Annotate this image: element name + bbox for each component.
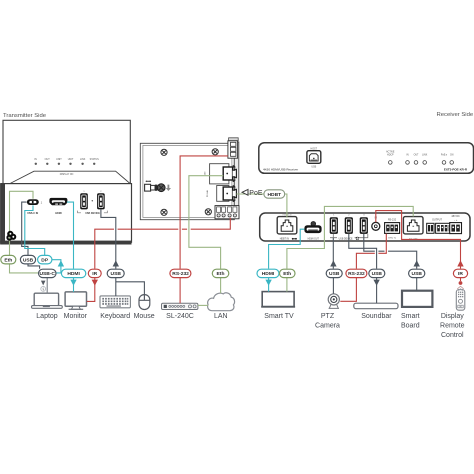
wire HDBT pill to receiver HDBT IN port (green) bbox=[284, 194, 287, 218]
trapezoid bezel bbox=[10, 171, 130, 183]
svg-text:OUT: OUT bbox=[45, 158, 51, 161]
1G LAN RJ45 (receiver) bbox=[403, 217, 423, 241]
pill RS-232 (SL-240C) bbox=[170, 269, 191, 277]
svg-text:PD LAN: PD LAN bbox=[206, 189, 209, 197]
wire DP from USB-C port to DP pill (teal) bbox=[25, 205, 45, 255]
svg-text:Monitor: Monitor bbox=[64, 313, 88, 320]
arrow down HDMI monitor (teal) bbox=[70, 280, 76, 286]
pill RS-232 (PTZ) bbox=[346, 269, 367, 277]
Smart Board icon bbox=[402, 291, 432, 307]
svg-text:UNIT: UNIT bbox=[56, 158, 62, 161]
svg-text:HOST: HOST bbox=[310, 148, 317, 151]
pill HDMI (monitor) bbox=[61, 269, 85, 277]
USB DEVICE ports 1-3 (receiver) bbox=[330, 215, 368, 241]
svg-text:USB DEVICE: USB DEVICE bbox=[339, 239, 353, 241]
USB DEVICE ports 1,2 (transmitter) bbox=[78, 191, 108, 215]
PTZ camera icon bbox=[328, 294, 339, 309]
wire IR jack to remote control (red) bbox=[376, 211, 461, 269]
svg-text:USB-C: USB-C bbox=[39, 271, 55, 277]
svg-text:USB: USB bbox=[23, 257, 34, 263]
pill HDMI (TV) bbox=[257, 269, 279, 277]
wire USB port2 to Soundbar (slate) bbox=[349, 234, 377, 269]
svg-text:STATUS: STATUS bbox=[90, 158, 99, 161]
Smart TV icon bbox=[261, 292, 295, 308]
svg-text:Keyboard: Keyboard bbox=[100, 313, 130, 320]
arrow up USB board (slate) bbox=[414, 260, 420, 266]
IR waves above remote bbox=[457, 286, 463, 289]
HDBT IN RJ45 (receiver) bbox=[277, 214, 297, 240]
arrow up USB PTZ (slate) bbox=[330, 260, 336, 266]
svg-text:HDMI: HDMI bbox=[67, 271, 80, 277]
monitor icon bbox=[65, 292, 86, 309]
wire DP pill to USB-C pill (teal) bbox=[52, 260, 61, 273]
pill DP (tx) bbox=[38, 255, 52, 264]
LED dots bbox=[35, 163, 96, 165]
svg-text:USB: USB bbox=[412, 271, 423, 277]
svg-text:RS-232: RS-232 bbox=[388, 219, 397, 222]
svg-text:Receiver Side: Receiver Side bbox=[437, 112, 474, 118]
svg-text:G Rx Tx: G Rx Tx bbox=[388, 237, 397, 239]
svg-text:EXT3-POE-XR-R: EXT3-POE-XR-R bbox=[444, 168, 468, 172]
wire HDMI port to monitor (teal) bbox=[67, 202, 74, 269]
pill HDBT bbox=[264, 190, 285, 198]
svg-text:Remote: Remote bbox=[440, 322, 465, 329]
svg-text:OUT: OUT bbox=[414, 154, 419, 156]
middle mounting plate (transmitter rear) bbox=[140, 142, 239, 220]
LED labels bbox=[34, 158, 99, 161]
DEVICES-LAYER bbox=[0, 120, 473, 244]
Soundbar icon bbox=[354, 303, 398, 309]
wire Eth from USB-C port to Eth pill (green) bbox=[10, 191, 34, 255]
svg-text:− +: − + bbox=[454, 219, 458, 222]
svg-text:HDCP: HDCP bbox=[387, 154, 394, 156]
TEXT-LAYER bbox=[3, 112, 474, 339]
svg-text:IR: IR bbox=[92, 271, 97, 277]
svg-text:ACTIVE: ACTIVE bbox=[386, 151, 395, 154]
svg-text:LINK: LINK bbox=[422, 154, 428, 156]
svg-text:Board: Board bbox=[401, 322, 420, 329]
kramer logo bbox=[7, 232, 15, 240]
bottom terminal block on plate bbox=[215, 206, 239, 219]
pill IR (remote) bbox=[453, 269, 467, 277]
svg-text:Soundbar: Soundbar bbox=[361, 313, 392, 320]
svg-text:Eth: Eth bbox=[283, 271, 291, 277]
svg-text:LINK: LINK bbox=[80, 158, 86, 161]
arrow down IR monitor (red) bbox=[92, 280, 98, 286]
OUTPUT relay terminal (receiver) bbox=[427, 219, 454, 234]
laptop icon bbox=[32, 293, 63, 308]
wire USB from USB-C port to USB pill (slate) bbox=[22, 202, 28, 256]
svg-text:IN: IN bbox=[34, 158, 37, 161]
svg-text:DP: DP bbox=[41, 257, 49, 263]
LAN cloud icon bbox=[208, 293, 235, 311]
svg-text:HDBT IN: HDBT IN bbox=[280, 239, 289, 241]
svg-text:Control: Control bbox=[441, 332, 464, 339]
transmitter wall-plate bottom section bbox=[0, 184, 131, 245]
svg-text:OUTPUT: OUTPUT bbox=[432, 219, 442, 222]
pill USB (tx) bbox=[20, 255, 35, 264]
svg-text:Smart TV: Smart TV bbox=[264, 313, 294, 320]
pill IR (monitor) bbox=[88, 269, 101, 277]
ICONS-LAYER bbox=[32, 281, 465, 311]
arrow down HDMI TV (teal) bbox=[265, 280, 271, 286]
HDMI OUT port (receiver) bbox=[304, 222, 321, 241]
svg-text:HDMI OUT: HDMI OUT bbox=[308, 239, 320, 241]
svg-text:48V DC: 48V DC bbox=[451, 215, 460, 218]
HDBT PoE RJ45 (plate lower jack) bbox=[206, 185, 237, 202]
svg-text:UNIT: UNIT bbox=[68, 158, 74, 161]
mouse icon bbox=[139, 295, 150, 310]
svg-text:PoE ▸: PoE ▸ bbox=[441, 153, 447, 156]
wire RS-232 terminal to PTZ camera (red) bbox=[356, 234, 386, 269]
USB-C IN port (transmitter) bbox=[27, 199, 43, 215]
wire RS-232 from plate top terminal to SL-240C (red) bbox=[180, 156, 228, 269]
pill USB (PTZ) bbox=[326, 269, 342, 277]
IR emitter jack on plate left bbox=[145, 181, 171, 192]
arrow up IR remote (red) bbox=[457, 260, 463, 266]
receiver rear panel bbox=[260, 213, 470, 241]
top terminal block on plate bbox=[228, 138, 238, 158]
svg-text:Mouse: Mouse bbox=[134, 313, 155, 320]
48V DC power terminal (receiver) bbox=[450, 215, 462, 233]
svg-text:PoE: PoE bbox=[249, 190, 263, 197]
svg-text:Laptop: Laptop bbox=[36, 313, 58, 320]
svg-text:USB-C IN: USB-C IN bbox=[27, 212, 38, 215]
svg-text:4K60 HDMI/USB Receiver: 4K60 HDMI/USB Receiver bbox=[263, 168, 298, 172]
RS-232 terminal (receiver) bbox=[385, 219, 400, 240]
IR jack (receiver) bbox=[372, 217, 380, 231]
svg-text:HDBT: HDBT bbox=[268, 192, 282, 198]
plate screws x4 bbox=[161, 149, 218, 216]
svg-text:LAN: LAN bbox=[214, 313, 228, 320]
arrow down USB soundbar (slate) bbox=[373, 280, 379, 286]
wire USB port1 to PTZ camera (slate) bbox=[332, 238, 334, 269]
wire Eth pill to USB-C pill (green) bbox=[10, 264, 39, 273]
svg-text:USB: USB bbox=[329, 271, 340, 277]
svg-text:SL-240C: SL-240C bbox=[166, 313, 194, 320]
svg-text:Smart: Smart bbox=[401, 313, 420, 320]
svg-text:IN: IN bbox=[406, 154, 409, 156]
PILLS-LAYER bbox=[1, 190, 468, 291]
svg-text:HDMI: HDMI bbox=[262, 271, 275, 277]
svg-text:RS-232: RS-232 bbox=[172, 271, 189, 277]
svg-text:ON: ON bbox=[450, 154, 454, 156]
svg-text:USB: USB bbox=[111, 271, 122, 277]
SL-240C controller icon bbox=[162, 303, 198, 309]
WIRES-LAYER bbox=[10, 156, 461, 306]
arrow up DP (teal) bbox=[58, 260, 64, 266]
wire HDMI OUT to Smart TV (teal) bbox=[269, 229, 305, 268]
svg-text:Eth: Eth bbox=[217, 271, 225, 277]
wire USB port3 to Smart Board (slate) bbox=[364, 234, 417, 269]
wire USB pill to USB-C pill (slate) bbox=[28, 264, 40, 269]
wire Eth SL-240C to LAN cloud (green) bbox=[198, 304, 208, 306]
svg-text:RS-232: RS-232 bbox=[348, 271, 365, 277]
Display remote control icon bbox=[456, 281, 465, 310]
pill USB-C bbox=[39, 269, 57, 277]
wire Eth from receiver LAN port to Smart TV (green) bbox=[287, 206, 413, 268]
pill USB (keyboard) bbox=[107, 269, 124, 277]
HDMI port (transmitter) bbox=[49, 198, 67, 215]
svg-text:DISPLAY ON: DISPLAY ON bbox=[60, 173, 74, 176]
wire HDBT PoE from plate jack to HDBT pill (green) bbox=[236, 193, 264, 195]
transmitter wall-plate top section bbox=[3, 120, 130, 183]
svg-text:PTZ: PTZ bbox=[321, 313, 335, 320]
wire USB-C pill to laptop (gray) bbox=[46, 277, 48, 293]
svg-text:USB: USB bbox=[372, 271, 383, 277]
PoE label with left triangle bbox=[242, 189, 248, 195]
IR emitter red dot bbox=[459, 281, 463, 285]
arrow down + charge circle below USB-C pill bbox=[41, 281, 46, 286]
wire Eth from plate LAN jack to LAN cloud (green) bbox=[189, 176, 223, 269]
svg-text:IR: IR bbox=[458, 271, 463, 277]
receiver front panel bbox=[259, 143, 474, 174]
svg-text:Display: Display bbox=[441, 313, 464, 320]
svg-text:Transmitter Side: Transmitter Side bbox=[3, 113, 47, 119]
pill USB (board) bbox=[409, 269, 425, 277]
svg-text:HDMI: HDMI bbox=[55, 212, 62, 215]
front LEDs bbox=[386, 151, 454, 157]
wire IR from plate terminal to monitor (red) bbox=[95, 218, 231, 269]
pill Eth (tx) bbox=[1, 255, 16, 264]
svg-text:USB: USB bbox=[311, 166, 316, 169]
LAN RJ45 (plate upper jack) bbox=[204, 164, 237, 184]
pill Eth (LAN) bbox=[212, 269, 229, 277]
USB HOST port bbox=[307, 151, 321, 164]
arrow up USB keyboard (slate) bbox=[113, 260, 119, 266]
svg-text:Eth: Eth bbox=[4, 257, 12, 263]
pill USB (soundbar) bbox=[369, 269, 385, 277]
svg-text:Camera: Camera bbox=[315, 322, 340, 329]
pill Eth (TV) bbox=[280, 269, 296, 277]
wire USB from tx USB port to keyboard and mouse (slate) bbox=[101, 209, 116, 268]
keyboard icon bbox=[100, 296, 130, 308]
svg-text:USB DEVICE: USB DEVICE bbox=[85, 212, 100, 215]
